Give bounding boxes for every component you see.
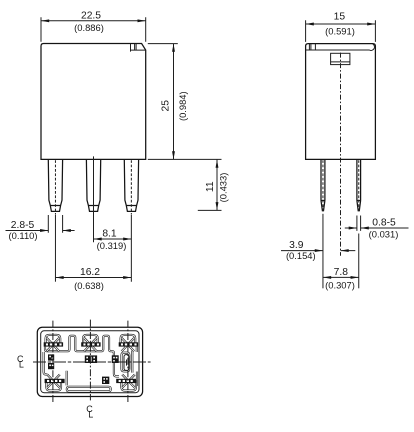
svg-text:(0.433): (0.433) xyxy=(217,173,228,203)
dimension 11 (0.433) pin length xyxy=(198,160,229,211)
svg-text:(0.591): (0.591) xyxy=(325,25,355,36)
bottom right pocket wall xyxy=(136,372,138,387)
svg-text:15: 15 xyxy=(334,11,346,22)
pin B (side view right) xyxy=(357,159,361,210)
pin B centerline xyxy=(358,160,360,211)
dimension 16.2 (0.638) outer pin pitch xyxy=(55,215,131,291)
pin 3 (right, front view) xyxy=(124,160,138,212)
wall right of top-right pocket xyxy=(136,345,138,352)
svg-text:(0.031): (0.031) xyxy=(369,229,399,240)
svg-text:(0.886): (0.886) xyxy=(74,22,104,33)
coil terminal slot (right) outer xyxy=(122,353,130,372)
molded boss lower-left xyxy=(48,363,54,369)
body centerline (side view) xyxy=(340,53,342,256)
dimension 2.8-5 (0.110) pin width xyxy=(6,215,75,241)
svg-text:(0.638): (0.638) xyxy=(74,280,104,291)
svg-text:22.5: 22.5 xyxy=(81,10,101,21)
centerline vertical middle (bottom view) xyxy=(89,320,91,401)
terminal assembly bottom-left (pin 8) xyxy=(45,375,65,391)
pin 2 (middle, front view) xyxy=(86,160,100,212)
svg-text:(0.984): (0.984) xyxy=(177,91,188,121)
svg-text:16.2: 16.2 xyxy=(80,267,100,278)
marking window on side view xyxy=(331,53,350,64)
centerline symbol bottom xyxy=(86,404,93,420)
centerline vertical right (bottom view) xyxy=(127,321,129,403)
centerline vertical left (bottom view) xyxy=(52,321,54,403)
coil terminal slot inner xyxy=(124,355,129,371)
pin A centerline xyxy=(322,160,324,211)
cavity channel walls xyxy=(45,336,119,377)
pin 1 centerline xyxy=(54,160,56,214)
dimension 3.9 (0.154) pin to center xyxy=(281,214,355,288)
bottom view outer case outline xyxy=(37,327,142,396)
svg-text:(0.110): (0.110) xyxy=(8,230,37,241)
terminal assembly top-middle (pin 6) xyxy=(81,335,100,351)
svg-text:7.8: 7.8 xyxy=(334,267,349,278)
molded boss centre-right xyxy=(112,355,119,363)
relay body side view xyxy=(306,44,376,160)
dimension 0.8-5 (0.031) pin thickness xyxy=(345,216,409,240)
bottom centre channel slot xyxy=(67,387,111,392)
pin 3 centerline xyxy=(130,160,132,214)
right wall beside slot xyxy=(131,351,133,373)
relay body front view xyxy=(41,44,146,160)
bottom left pocket wall xyxy=(66,371,68,386)
svg-text:25: 25 xyxy=(160,100,171,112)
bottom view inner case outline xyxy=(41,331,139,393)
svg-text:L: L xyxy=(19,359,24,369)
svg-text:11: 11 xyxy=(205,181,216,192)
dimension 8.1 (0.319) pin pitch xyxy=(94,156,132,281)
molded boss centre pair xyxy=(85,355,97,363)
svg-text:(0.319): (0.319) xyxy=(97,240,127,251)
molded boss upper-left xyxy=(48,354,54,360)
svg-text:8.1: 8.1 xyxy=(102,229,117,240)
terminal assembly bottom-right (pin 9) xyxy=(116,375,136,391)
svg-text:0.8-5: 0.8-5 xyxy=(372,218,396,229)
molded boss bottom-centre xyxy=(102,377,109,384)
centerline horizontal (bottom view) xyxy=(33,361,151,363)
svg-text:L: L xyxy=(88,409,93,419)
centerline symbol left xyxy=(17,354,24,370)
left inner wall xyxy=(44,352,48,375)
cover seam / tab side view xyxy=(306,44,375,51)
svg-text:(0.154): (0.154) xyxy=(286,250,316,261)
pin 1 (left, front view) xyxy=(48,160,62,212)
dimension 25 (0.984) body height xyxy=(148,44,222,160)
pin A (side view left) xyxy=(321,159,326,210)
terminal assembly top-right (pin 7) xyxy=(119,335,138,351)
terminal assembly top-left (pin 5) xyxy=(44,335,63,351)
dimension 15 (0.591) body depth xyxy=(306,11,376,42)
vent tab detail on body top right xyxy=(131,44,146,52)
dimension 7.8 (0.307) pin pitch side view xyxy=(323,234,359,291)
svg-text:(0.307): (0.307) xyxy=(325,279,355,290)
dimension 22.5 (0.886) body width xyxy=(41,10,146,42)
